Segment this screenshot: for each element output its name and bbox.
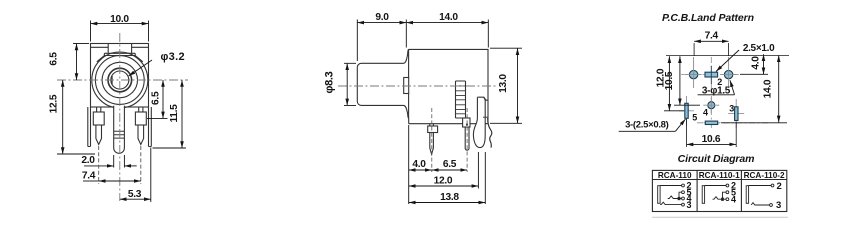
circuit RCA-110-1: jack symbol and wires	[702, 184, 729, 203]
pad hole 4 (middle, 3-phi1.5)	[708, 102, 715, 109]
pin 2 terminal circle	[682, 184, 685, 187]
front view: center hole circle (phi 3.2)	[111, 71, 129, 89]
dimension 13.0 (body height)	[490, 48, 522, 123]
front view: connector body outline	[91, 44, 149, 108]
land pattern: crosshairs for pads 3/4/5	[679, 96, 744, 128]
pad hole 1 (left, 3-phi1.5)	[689, 70, 697, 78]
junction dot	[722, 198, 724, 200]
bottom pad slot (2.5 x 0.8)	[705, 121, 717, 124]
land pattern: text labels	[625, 31, 775, 145]
wire pin 5 to junction	[679, 192, 682, 198]
RCA-110-1 pin number labels	[731, 181, 736, 205]
leader for 3-(2.5x0.8) label	[619, 130, 676, 132]
svg-text:6.5: 6.5	[151, 91, 162, 105]
side view: dashed pin centerlines	[432, 108, 467, 172]
svg-text:P.C.B.Land Pattern: P.C.B.Land Pattern	[662, 12, 754, 24]
pin 2 terminal circle	[771, 184, 774, 187]
wire to pin 2	[749, 185, 771, 187]
front view: center contact pin (pin 2)	[114, 106, 125, 154]
wire pin 4 with switch contact	[713, 197, 727, 200]
front view: dimension text labels	[49, 14, 185, 200]
dimensions	[57, 21, 186, 203]
land pattern: crosshairs over pad holes	[686, 57, 737, 113]
front view: top key tower	[108, 44, 131, 54]
front view: outer shell circle	[92, 52, 148, 108]
leader arrow for phi 3.2 label	[129, 60, 152, 76]
side view: front solder pin	[428, 124, 438, 155]
front view: centerlines	[57, 33, 188, 201]
dimensions 9.0 and 14.0 (top)	[357, 20, 488, 62]
side view: ground spring hook	[473, 97, 491, 147]
svg-text:2: 2	[717, 77, 722, 87]
svg-text:RCA-110: RCA-110	[658, 171, 692, 180]
svg-text:13.8: 13.8	[440, 192, 459, 203]
svg-text:2.5×1.0: 2.5×1.0	[743, 43, 775, 54]
pad 3 slot (2.5 x 0.8)	[735, 107, 738, 121]
svg-text:2.0: 2.0	[81, 155, 95, 166]
svg-text:12.5: 12.5	[49, 94, 60, 113]
svg-text:7.4: 7.4	[82, 171, 96, 182]
svg-text:5: 5	[692, 112, 697, 122]
svg-text:RCA-110-2: RCA-110-2	[744, 171, 785, 180]
pin 5 terminal circle	[682, 191, 685, 194]
wire pin 3 with spring contact	[751, 203, 769, 205]
dimensions	[344, 20, 522, 205]
wire pin 3 with spring contact	[660, 202, 682, 204]
svg-text:10.0: 10.0	[110, 14, 129, 25]
pin 3 terminal circle	[770, 204, 773, 207]
wire pin 4 with switch contact	[668, 196, 682, 199]
leader for 3-phi1.5 label	[698, 94, 735, 96]
front view: left mounting peg	[88, 107, 91, 147]
svg-text:12.0: 12.0	[434, 175, 453, 186]
dimension 10.0 (body width)	[91, 21, 149, 42]
dimension 5.3 (center to peg)	[150, 148, 152, 203]
front view: chamfer diagonals	[97, 56, 143, 62]
jack sleeve bar J3	[746, 186, 748, 204]
side view: serrated contact strip	[456, 81, 466, 118]
front view: contact bushing circle	[108, 68, 132, 92]
wire to pin 2	[660, 185, 681, 187]
front view: left solder pin (pin 3)	[93, 107, 104, 145]
svg-text:11.5: 11.5	[169, 104, 180, 123]
svg-text:14.0: 14.0	[439, 12, 458, 23]
pin 3 terminal circle	[682, 203, 685, 206]
RCA-110-2 pin number labels	[776, 181, 782, 211]
front view: top band lines	[91, 46, 149, 48]
svg-text:4.0: 4.0	[751, 56, 762, 70]
dimension 6.5 (top to center, left)	[73, 43, 89, 45]
land pattern: top reference line	[666, 55, 789, 57]
front view: insulator circle	[102, 62, 137, 97]
side view: housing body outline	[409, 49, 488, 123]
dimensions 4.0 / 6.5 / 12.0 / 13.8 (bottom)	[408, 125, 410, 204]
pad hole 3 (right, 3-phi1.5)	[724, 70, 732, 78]
faint shadow line below table	[652, 216, 788, 218]
junction dot	[678, 197, 680, 199]
dimension 12.5 (center to pin tip, left)	[57, 153, 95, 155]
front view: right solder pin (pin 4)	[135, 107, 146, 145]
svg-text:5.3: 5.3	[128, 189, 142, 200]
pin 5 terminal circle	[726, 191, 729, 194]
svg-text:7.4: 7.4	[705, 31, 719, 42]
wire to pin 2	[705, 185, 726, 187]
svg-text:φ8.3: φ8.3	[324, 71, 336, 93]
dimension phi 8.3 (barrel)	[344, 63, 356, 105]
circuit diagram table frame	[652, 170, 786, 211]
land pattern: dimensions	[619, 41, 787, 147]
dimension 7.4 (pin spacing)	[99, 146, 141, 184]
jack sleeve bar J2	[702, 186, 704, 204]
svg-text:φ3.2: φ3.2	[161, 51, 185, 63]
dimension 6.5 (right side)	[147, 117, 168, 119]
pad 2 rectangle (2.5 x 1.0)	[705, 72, 718, 77]
front view: shell ring circle	[95, 56, 144, 105]
side view: rear solder pin	[463, 118, 470, 150]
svg-text:3: 3	[729, 104, 734, 114]
svg-text:13.0: 13.0	[498, 74, 509, 93]
pin 2 terminal circle	[726, 184, 729, 187]
pin 4 terminal circle	[682, 197, 685, 200]
side view: joint collar	[404, 78, 409, 94]
front view: top flange	[104, 53, 135, 55]
svg-text:6.5: 6.5	[49, 52, 60, 66]
circuit RCA-110-2: jack symbol and wires	[746, 184, 774, 206]
wire pin 5 to junction	[723, 192, 727, 199]
svg-text:2: 2	[777, 181, 782, 192]
svg-text:4: 4	[703, 108, 708, 118]
pad 5 slot (2.5 x 0.8)	[685, 103, 688, 118]
svg-text:3: 3	[687, 200, 692, 210]
svg-text:4: 4	[731, 194, 736, 204]
front view: right mounting peg	[149, 107, 152, 147]
side view: barrel (phi 8.3 bushing)	[357, 49, 408, 123]
dimension 2.0 (center pin width)	[114, 155, 125, 168]
dimension 11.5 (right side)	[153, 147, 187, 149]
svg-text:10.5: 10.5	[664, 71, 675, 90]
front view: hole flat chord	[111, 76, 113, 85]
svg-text:3-(2.5×0.8): 3-(2.5×0.8)	[625, 120, 669, 131]
land pattern: dash-dot centerlines	[681, 57, 770, 128]
svg-text:10.6: 10.6	[702, 134, 721, 145]
circuit RCA-110: jack symbol and wires	[658, 184, 685, 206]
side view: horizontal centerline	[338, 85, 498, 87]
svg-text:Circuit Diagram: Circuit Diagram	[678, 153, 755, 165]
svg-text:14.0: 14.0	[763, 79, 774, 98]
RCA-110 pin number labels	[687, 181, 692, 210]
svg-text:9.0: 9.0	[375, 12, 389, 23]
svg-text:4.0: 4.0	[412, 159, 426, 170]
svg-text:6.5: 6.5	[443, 159, 457, 170]
land pattern: centerline through pad 2	[710, 66, 712, 84]
jack sleeve bar J1	[658, 186, 660, 204]
pin 4 terminal circle	[726, 198, 729, 201]
svg-text:3: 3	[776, 200, 781, 211]
svg-text:RCA-110-1: RCA-110-1	[699, 171, 740, 180]
